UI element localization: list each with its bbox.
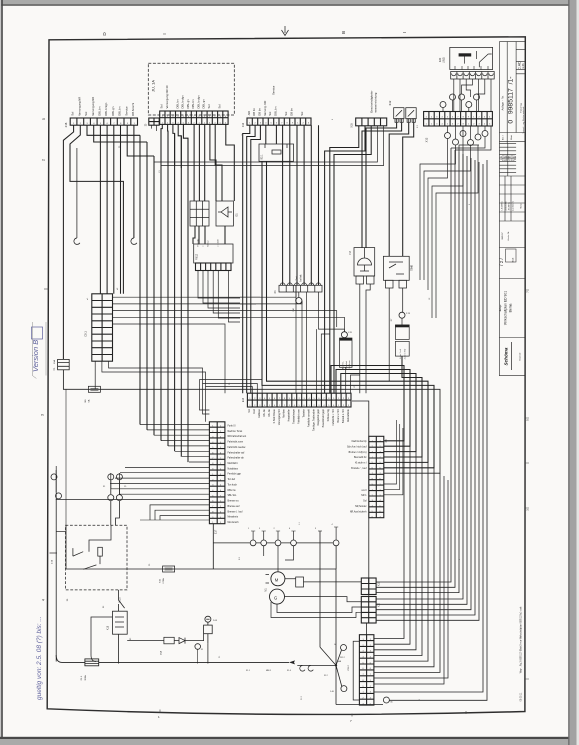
svg-text:09.09.11: 09.09.11	[521, 692, 523, 701]
cell digits X5	[162, 116, 227, 124]
svg-text:Hauptstellm: Hauptstellm	[288, 409, 291, 421]
svg-text:Fahrschalter auf: Fahrschalter auf	[228, 451, 245, 454]
terminal strip X16	[70, 118, 137, 125]
wire	[63, 125, 73, 359]
wire	[325, 126, 365, 393]
fuse F1 10A	[58, 359, 70, 369]
circled minus	[205, 616, 211, 622]
svg-text:DSL bn: DSL bn	[264, 409, 266, 417]
wire	[366, 623, 368, 635]
version note ruled box	[32, 322, 46, 379]
svg-text:DB bn: DB bn	[289, 108, 293, 116]
wire	[297, 531, 383, 705]
wire	[178, 124, 181, 168]
rectifier block G1	[190, 201, 233, 226]
svg-text:Sch.Aus / sich l,auf: Sch.Aus / sich l,auf	[347, 445, 367, 448]
wire	[173, 124, 175, 166]
svg-text:DBL gn: DBL gn	[202, 99, 206, 109]
svg-text:Bremse auf: Bremse auf	[228, 505, 240, 508]
terminal strip X18	[356, 118, 387, 126]
circled pins mid-left	[108, 474, 114, 480]
svg-text:DB bn: DB bn	[257, 108, 261, 116]
terminal strip X8	[369, 436, 384, 517]
svg-text:Bema: Bema	[508, 303, 512, 312]
svg-text:Brems w. NR: Brems w. NR	[337, 409, 340, 423]
svg-text:31.2: 31.2	[324, 675, 328, 677]
svg-text:I: I	[402, 32, 407, 33]
cell digits X12	[426, 116, 492, 125]
svg-text:Fahrtricht.vorw: Fahrtricht.vorw	[228, 441, 244, 444]
cable hook	[131, 238, 137, 244]
cable hook	[300, 666, 305, 672]
svg-text:0 9985117 /1-: 0 9985117 /1-	[507, 76, 514, 123]
svg-text:DB bn: DB bn	[252, 108, 256, 116]
svg-text:15A: 15A	[160, 651, 163, 655]
svg-text:K15: K15	[107, 625, 110, 630]
wire	[262, 161, 434, 468]
fuse F1.1 300A	[85, 659, 99, 666]
wire	[198, 271, 240, 323]
wire	[200, 380, 263, 410]
module FB12	[194, 244, 233, 263]
svg-text:SBL ScL: SBL ScL	[228, 495, 238, 497]
svg-text:1 M: 1 M	[293, 308, 295, 312]
wire	[353, 641, 359, 700]
svg-text:Notablass: Notablass	[228, 467, 239, 470]
svg-text:Wsp-...Pg.3-9985117-Blatt-2-vo: Wsp-...Pg.3-9985117-Blatt-2-von-Wirkscha…	[520, 606, 523, 673]
terminal strip X19	[361, 578, 376, 595]
svg-text:Sol: Sol	[300, 111, 304, 115]
F20 fuse holder row	[451, 72, 495, 80]
svg-text:Wirkschaltplan ED 901: Wirkschaltplan ED 901	[503, 291, 507, 325]
wire	[50, 552, 58, 554]
cell digits X8	[372, 441, 382, 519]
wire	[56, 655, 289, 662]
svg-text:Funklicht vorwahl: Funklicht vorwahl	[307, 409, 310, 427]
wire	[283, 125, 319, 285]
terminal strip X10	[247, 118, 311, 125]
svg-text:Sol: Sol	[207, 104, 211, 108]
svg-text:Name: Name	[521, 203, 523, 208]
svg-text:Kl.stufe m l: Kl.stufe m l	[355, 462, 367, 465]
svg-text:Zust: Zust	[514, 156, 517, 160]
svg-text:Masse: Masse	[208, 240, 210, 247]
relay contact K12a	[394, 108, 404, 123]
sensor B2.1	[259, 144, 294, 161]
svg-text:Rangierlok gepr: Rangierlok gepr	[317, 409, 320, 426]
svg-text:M: M	[275, 578, 279, 583]
svg-text:X18: X18	[351, 123, 354, 128]
inline connector X15	[163, 566, 175, 572]
wire	[352, 401, 369, 597]
wire	[296, 285, 360, 393]
svg-text:Fernlicht ggn: Fernlicht ggn	[228, 473, 242, 476]
svg-text:X10: X10	[379, 602, 381, 607]
wire	[110, 467, 209, 483]
wire	[167, 124, 169, 164]
svg-text:Zeichn.-Nr.: Zeichn.-Nr.	[507, 231, 510, 241]
wire	[389, 288, 403, 381]
svg-text:/ 2 /: / 2 /	[499, 257, 504, 265]
svg-text:Zust Datum: Zust Datum	[512, 201, 515, 211]
svg-text:Zutter 1 auf: Zutter 1 auf	[399, 349, 402, 359]
svg-text:Funkfernst: Funkfernst	[348, 360, 351, 369]
svg-text:Schluss Sig: Schluss Sig	[328, 409, 330, 422]
svg-text:20.3.01 Ha: 20.3.01 Ha	[506, 200, 508, 210]
wire	[127, 125, 154, 156]
circled pin	[195, 644, 201, 650]
wire	[161, 124, 162, 162]
wire	[319, 292, 345, 332]
svg-text:FB12: FB12	[196, 253, 199, 260]
svg-text:Steuerlok: Steuerlok	[345, 361, 348, 369]
svg-text:Fahrtlicht vorn: Fahrtlicht vorn	[298, 408, 301, 423]
svg-text:Betrieb o. NR: Betrieb o. NR	[342, 409, 345, 423]
svg-text:Gebluse: Gebluse	[259, 408, 261, 417]
inline connector on supply	[88, 386, 100, 392]
wire	[335, 546, 337, 569]
svg-text:Zutter in Ruf: Zutter in Ruf	[404, 348, 407, 359]
svg-text:Versorgung NR 30: Versorgung NR 30	[165, 85, 169, 108]
handwritten note Version B	[31, 340, 40, 372]
svg-text:NotHorn: NotHorn	[283, 408, 286, 417]
svg-text:2: 2	[42, 159, 46, 161]
wire	[87, 125, 140, 135]
svg-text:K12: K12	[388, 100, 392, 105]
wire	[298, 292, 300, 298]
row tick	[44, 288, 49, 290]
wire	[360, 284, 370, 393]
svg-text:S.Bett NResn: S.Bett NResn	[273, 409, 276, 424]
circled pin below X4	[296, 298, 302, 304]
handwritten note gueltig von	[36, 616, 43, 700]
svg-text:Sol: Sol	[249, 409, 251, 413]
terminal strip X12	[424, 112, 493, 127]
switch block X7	[399, 312, 405, 318]
svg-text:DBL bn: DBL bn	[273, 106, 277, 116]
svg-text:Auflage - Nr.: Auflage - Nr.	[501, 95, 504, 110]
svg-text:Bremse l, l auf: Bremse l, l auf	[228, 510, 243, 513]
wire	[330, 126, 359, 393]
terminal strip X13	[359, 635, 374, 705]
wire	[266, 125, 277, 144]
terminal strip X5	[160, 111, 228, 124]
wire	[197, 649, 199, 663]
svg-text:Blatt: Blatt	[510, 135, 513, 140]
svg-text:Tastaturlampe: Tastaturlampe	[293, 408, 296, 423]
svg-text:messeinrichtung: messeinrichtung	[374, 92, 378, 113]
svg-text:C.AD: C.AD	[517, 61, 521, 70]
svg-text:DSL bn: DSL bn	[269, 409, 271, 417]
terminal strip E16	[247, 393, 351, 407]
svg-text:NR.Fahrschalt ein: NR.Fahrschalt ein	[228, 435, 247, 438]
svg-text:Fregabe: Fregabe	[196, 238, 199, 247]
wire	[420, 131, 478, 319]
wire	[113, 285, 337, 393]
switch block X11	[341, 332, 347, 338]
motor M1	[271, 572, 285, 586]
drawing frame border	[47, 37, 525, 715]
svg-text:Service: Service	[272, 85, 276, 95]
svg-text:10A: 10A	[53, 360, 56, 364]
cell digits E17	[212, 426, 222, 525]
terminal strip CB.1	[92, 294, 113, 361]
wire	[213, 542, 336, 544]
wire	[362, 123, 414, 257]
wire	[95, 361, 209, 422]
title block	[499, 42, 524, 376]
svg-text:170A: 170A	[162, 578, 165, 584]
svg-text:Mehrfahrt: Mehrfahrt	[228, 462, 238, 465]
terminal strip X10.2	[361, 597, 376, 624]
wire	[264, 546, 294, 572]
cell digits X13	[362, 639, 371, 706]
wire	[94, 125, 147, 142]
fuse block F20 LB(2)	[450, 47, 493, 69]
svg-text:bel-ink: bel-ink	[301, 274, 303, 282]
svg-text:Schöma: Schöma	[504, 347, 509, 365]
wire	[336, 370, 410, 447]
wire	[140, 516, 209, 520]
svg-text:4: 4	[42, 599, 46, 601]
svg-text:Fred: Fred	[253, 409, 256, 414]
wire	[140, 129, 188, 463]
svg-text:Sol: Sol	[363, 501, 367, 503]
wire	[374, 476, 448, 684]
svg-text:Sol: Sol	[84, 111, 88, 115]
svg-text:DB Anschl: DB Anschl	[131, 103, 135, 116]
svg-text:DBL bn/gn: DBL bn/gn	[104, 102, 108, 116]
module 75MB	[383, 256, 409, 288]
contactor K15	[113, 590, 128, 664]
svg-text:251.2: 251.2	[340, 657, 345, 659]
svg-text:DBL bn: DBL bn	[191, 99, 195, 109]
svg-text:Fahrtricht. r. NR: Fahrtricht. r. NR	[332, 409, 335, 426]
battery	[204, 622, 213, 644]
svg-text:E.06: E.06	[522, 63, 525, 69]
cell digits X10	[249, 123, 310, 125]
svg-text:NR 1: NR 1	[361, 495, 367, 497]
svg-text:Nachtst.Fernlp: Nachtst.Fernlp	[352, 440, 368, 443]
svg-text:DBL bn/gn: DBL bn/gn	[196, 95, 200, 109]
svg-text:JU, 1A: JU, 1A	[151, 80, 156, 92]
wire	[374, 441, 440, 673]
svg-text:F20: F20	[438, 57, 442, 62]
svg-text:Bremse zu: Bremse zu	[228, 500, 240, 503]
svg-text:DBL gn: DBL gn	[186, 99, 190, 109]
svg-text:Versorgung NR: Versorgung NR	[91, 97, 95, 116]
wire	[210, 124, 222, 201]
svg-text:F1.1: F1.1	[81, 675, 83, 680]
svg-text:4.6.98 Mu: 4.6.98 Mu	[509, 202, 511, 210]
capacitor	[296, 577, 304, 587]
wire	[151, 125, 156, 131]
wire	[267, 161, 429, 462]
wire	[127, 634, 208, 664]
wire	[451, 126, 491, 152]
svg-text:X10: X10	[242, 122, 245, 127]
wire	[56, 466, 209, 520]
X12 circled pins above	[440, 102, 446, 108]
svg-text:LB(2): LB(2)	[443, 57, 446, 63]
svg-text:300A: 300A	[84, 675, 87, 681]
wire	[334, 126, 371, 393]
wire	[285, 579, 362, 602]
wire	[331, 366, 404, 441]
svg-text:NR,Sonder: NR,Sonder	[355, 505, 367, 508]
terminal strip FB12 pins	[196, 263, 232, 271]
svg-text:X16: X16	[64, 122, 68, 127]
wire	[140, 425, 209, 463]
X12 pin stubs	[443, 100, 485, 139]
svg-text:G1: G1	[235, 213, 239, 217]
wire	[100, 125, 120, 294]
svg-text:n 1:100: n 1:100	[218, 239, 220, 247]
svg-text:Blatt: Blatt	[512, 257, 515, 262]
svg-text:Sol: Sol	[160, 104, 164, 108]
svg-text:DBL t/w: DBL t/w	[228, 489, 236, 492]
arrowhead	[289, 660, 295, 664]
wire	[133, 125, 135, 238]
wire	[161, 126, 384, 166]
svg-text:Sol: Sol	[268, 111, 272, 115]
relay group K11 (dashed)	[66, 525, 128, 590]
wire	[226, 124, 235, 201]
wire	[65, 389, 67, 525]
svg-text:Sol: Sol	[71, 111, 75, 115]
svg-text:NR,Ausf.sicherh: NR,Ausf.sicherh	[350, 510, 367, 513]
svg-text:Versorgung NR: Versorgung NR	[278, 409, 281, 425]
wire	[253, 527, 336, 540]
wire	[76, 148, 78, 238]
terminal strip X6	[149, 118, 159, 125]
svg-text:Fahrschalter ab: Fahrschalter ab	[228, 457, 245, 460]
svg-text:I: I	[162, 33, 167, 34]
svg-text:9985117: 9985117	[502, 232, 504, 239]
wire	[277, 604, 361, 612]
tacho generator G	[270, 589, 285, 604]
svg-text:Sol: Sol	[217, 104, 221, 108]
svg-text:1.8.04 Rev: 1.8.04 Rev	[502, 201, 504, 210]
svg-text:X12: X12	[425, 137, 429, 142]
svg-text:DBL bn: DBL bn	[98, 106, 102, 116]
svg-text:E16: E16	[243, 397, 245, 402]
svg-text:Funk 0 /: Funk 0 /	[228, 426, 237, 428]
svg-text:Drehzahlmin: Drehzahlmin	[347, 409, 350, 423]
svg-text:Mot.Ansch: Mot.Ansch	[228, 521, 240, 524]
svg-text:CB.1: CB.1	[85, 331, 88, 337]
svg-text:-NR: -NR	[247, 111, 251, 116]
plug connector X4	[279, 283, 322, 292]
wire	[271, 602, 361, 618]
cell digits E16	[249, 398, 350, 407]
cable hook	[308, 666, 313, 672]
wire	[91, 617, 113, 662]
svg-text:Bl.stufe / , l auf: Bl.stufe / , l auf	[351, 467, 367, 470]
svg-text:Fahrtricht.rueckw: Fahrtricht.rueckw	[228, 446, 246, 449]
svg-text:E17: E17	[214, 529, 217, 534]
wire	[183, 124, 188, 170]
svg-text:75MB: 75MB	[412, 265, 414, 271]
wire	[63, 370, 440, 473]
X12 circled pins below	[445, 133, 451, 139]
svg-text:Bl.oben / zuf(l,zu): Bl.oben / zuf(l,zu)	[349, 452, 367, 454]
svg-text:G: G	[274, 595, 277, 600]
svg-text:Ton hoch: Ton hoch	[228, 484, 238, 486]
svg-text:Besetztmeld gepr: Besetztmeld gepr	[322, 409, 325, 427]
svg-text:Ers.f.: Ers.f.	[502, 135, 505, 140]
svg-text:B2.1: B2.1	[261, 154, 264, 160]
wire	[193, 226, 225, 244]
cable hook	[74, 238, 80, 244]
relay contact K12b	[406, 108, 416, 123]
svg-text:Tastatur: Tastatur	[302, 409, 305, 418]
wire	[243, 125, 261, 393]
svg-text:gueltig von: 2.5. 08 (?) bis: gueltig von: 2.5. 08 (?) bis: ...	[36, 616, 43, 700]
svg-text:Anlage: Anlage	[499, 304, 502, 312]
svg-text:Taxi-: Taxi-	[297, 275, 299, 280]
svg-text:3: 3	[41, 414, 45, 416]
svg-text:5: 5	[42, 118, 46, 120]
svg-text:und l: und l	[362, 490, 367, 492]
wire	[384, 420, 403, 495]
X13 circled pins	[341, 645, 347, 651]
svg-text:B: B	[341, 31, 346, 34]
svg-text:Sol: Sol	[284, 111, 288, 115]
wire	[70, 125, 123, 294]
wire	[341, 374, 416, 452]
wire	[194, 124, 205, 201]
wire	[374, 148, 483, 692]
svg-text:DBL bn/gn: DBL bn/gn	[181, 95, 185, 109]
svg-text:DBL gn: DBL gn	[111, 106, 115, 116]
cell digits X16	[73, 123, 136, 125]
diode	[179, 638, 185, 644]
svg-text:Ton tief: Ton tief	[228, 478, 236, 481]
svg-text:231.2: 231.2	[348, 664, 350, 670]
svg-text:Nachtst. Tonst: Nachtst. Tonst	[228, 430, 243, 433]
right ticks	[525, 290, 529, 679]
wire	[389, 160, 487, 700]
svg-text:Versorgung NR: Versorgung NR	[77, 97, 81, 116]
svg-text:Bremsdrl.für: Bremsdrl.für	[354, 456, 367, 459]
svg-text:Tonfolge, Tastleuchte: Tonfolge, Tastleuchte	[312, 408, 315, 431]
svg-text:Versorg. NR: Versorg. NR	[263, 101, 267, 116]
svg-text:Messkreis: Messkreis	[228, 516, 239, 519]
centre arrow marker	[282, 26, 289, 36]
wire	[56, 531, 65, 533]
terminal strip E17	[209, 422, 225, 524]
svg-text:Diepholz: Diepholz	[520, 353, 522, 361]
wire	[240, 297, 344, 332]
horn K13	[354, 248, 375, 284]
fuse 15A	[164, 637, 174, 644]
svg-text:DBL bn: DBL bn	[175, 99, 179, 109]
enclosure JU 1A	[148, 63, 234, 115]
svg-text:Bilse U.1-: Bilse U.1-	[343, 361, 345, 370]
wire	[66, 524, 336, 569]
svg-text:Service: Service	[124, 106, 128, 116]
wire	[56, 470, 119, 662]
svg-text:DBL bn: DBL bn	[118, 106, 122, 116]
wire	[384, 356, 422, 457]
svg-text:Vertraul. - mg. Rechte vorbeha: Vertraul. - mg. Rechte vorbehalt	[522, 106, 525, 133]
wire	[154, 126, 377, 162]
wire	[454, 79, 491, 112]
svg-text:X19: X19	[379, 581, 381, 586]
